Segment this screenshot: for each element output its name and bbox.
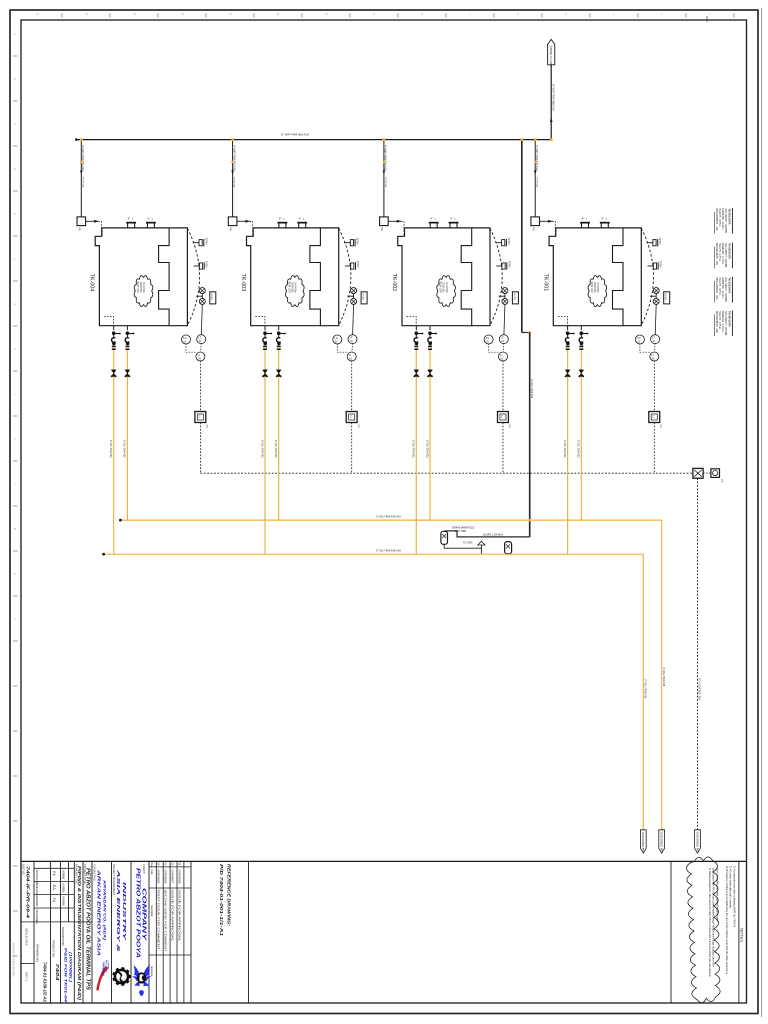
trunk crossing tick bbox=[528, 519, 531, 522]
signal drop to control room flag bbox=[697, 478, 699, 830]
svg-text:3"-OIL-7404-015-A1A: 3"-OIL-7404-015-A1A bbox=[376, 515, 401, 519]
svg-text:SECOND ISSUE FOR COMMENT: SECOND ISSUE FOR COMMENT bbox=[164, 890, 168, 953]
svg-text:ASIA ENERGY &: ASIA ENERGY & bbox=[115, 868, 121, 953]
svg-text:040808: 040808 bbox=[177, 870, 180, 885]
svg-text:DRAWING NO:: DRAWING NO: bbox=[36, 944, 40, 963]
lower header start dot bbox=[102, 553, 105, 556]
slop trunk upper segment bbox=[521, 140, 523, 333]
svg-text:TK-002 DATA: TK-002 DATA bbox=[727, 243, 731, 259]
double block valve capsule 1 bbox=[441, 531, 448, 544]
svg-text:7404: 7404 bbox=[55, 964, 60, 982]
svg-text:3"-OIL-7404-015: 3"-OIL-7404-015 bbox=[662, 667, 666, 687]
bottom off-page flag 1 bbox=[640, 830, 646, 853]
svg-text:F.A: F.A bbox=[52, 871, 56, 876]
svg-text:NOM. CAPACITY : 10000 BBL: NOM. CAPACITY : 10000 BBL bbox=[724, 243, 727, 268]
drain collection piping bbox=[444, 544, 481, 548]
svg-text:TK-003: TK-003 bbox=[240, 274, 246, 292]
svg-text:N: N bbox=[14, 573, 16, 576]
svg-text:ARVANDAN: ARVANDAN bbox=[102, 962, 105, 976]
svg-text:7404-01-0108-1/2-A1: 7404-01-0108-1/2-A1 bbox=[42, 962, 47, 1003]
svg-text:DESIGN PRESS. : ATM: DESIGN PRESS. : ATM bbox=[715, 243, 718, 265]
svg-text:PIPING & INSTRUMENTATION DIAGR: PIPING & INSTRUMENTATION DIAGRAM (P&ID) bbox=[76, 866, 82, 1000]
trunk jog tick bbox=[528, 331, 531, 334]
svg-text:DIAMETER : 14.63 m: DIAMETER : 14.63 m bbox=[721, 243, 724, 264]
recorder box bbox=[711, 469, 720, 478]
revision cloud around notes 4-6 bbox=[686, 857, 720, 1003]
svg-text:1) For general notes refer to: 1) For general notes refer to drawing DW… bbox=[732, 866, 735, 928]
svg-text:DIAMETER : 14.63 m: DIAMETER : 14.63 m bbox=[721, 209, 724, 230]
svg-text:DRAIN MANIFOLD: DRAIN MANIFOLD bbox=[452, 526, 474, 530]
lower yellow product header bbox=[103, 553, 643, 555]
svg-text:DESIGN PRESS. : ATM: DESIGN PRESS. : ATM bbox=[715, 277, 718, 299]
svg-text:TK-004: TK-004 bbox=[89, 274, 95, 292]
svg-text:COMPANY: COMPANY bbox=[107, 960, 110, 970]
PSV glyph bbox=[478, 541, 485, 545]
zone tick labels left bbox=[14, 33, 16, 621]
svg-text:M: M bbox=[14, 528, 16, 531]
svg-text:C: C bbox=[14, 123, 16, 126]
flow arrow on riser bbox=[550, 118, 553, 122]
upper yellow product header bbox=[120, 519, 662, 521]
bottom off-page flag 2 bbox=[659, 830, 665, 853]
svg-text:ISSUE FOR APPROVAL: ISSUE FOR APPROVAL bbox=[170, 890, 174, 943]
tank TK-002 bbox=[380, 138, 519, 554]
svg-text:DESIGN PRESS. : ATM: DESIGN PRESS. : ATM bbox=[715, 311, 718, 333]
svg-text:7404-IF-PR-09-4: 7404-IF-PR-09-4 bbox=[25, 866, 31, 918]
svg-text:Approved: Approved bbox=[150, 966, 153, 977]
zone tick labels top bbox=[36, 13, 711, 16]
client wings logo bbox=[132, 965, 152, 997]
svg-text:PROJECT NO:: PROJECT NO: bbox=[52, 940, 56, 958]
tank TK-001 bbox=[531, 138, 670, 554]
svg-text:FIRST ISSUE FOR COMMENT: FIRST ISSUE FOR COMMENT bbox=[157, 890, 161, 951]
riser to flare flag bbox=[550, 65, 552, 140]
svg-text:ARKAN ENERGY ASIA: ARKAN ENERGY ASIA bbox=[96, 868, 102, 956]
svg-text:NOM. CAPACITY : 10000 BBL: NOM. CAPACITY : 10000 BBL bbox=[724, 277, 727, 302]
svg-text:DRAWN: DRAWN bbox=[35, 896, 39, 906]
svg-text:DIAMETER : 14.63 m: DIAMETER : 14.63 m bbox=[721, 311, 724, 332]
approval rows grid bbox=[21, 868, 92, 963]
tank data table TK-003 bbox=[715, 277, 733, 303]
trunk junction tick bbox=[520, 138, 523, 141]
svg-text:ARVANDAN CO. (AEA): ARVANDAN CO. (AEA) bbox=[103, 878, 107, 941]
bottom off-page flag 3 bbox=[695, 830, 701, 853]
lower header riser down bbox=[642, 554, 644, 830]
svg-text:TK-004 DATA: TK-004 DATA bbox=[727, 311, 731, 327]
svg-text:Date: Date bbox=[150, 870, 153, 876]
svg-text:TK-002: TK-002 bbox=[391, 274, 397, 292]
svg-text:D: D bbox=[14, 168, 16, 171]
svg-text:CLIENT:: CLIENT: bbox=[142, 864, 146, 874]
svg-text:F.A: F.A bbox=[52, 898, 56, 903]
svg-text:3"x2" RED.: 3"x2" RED. bbox=[455, 530, 467, 533]
svg-text:DESCRIPTION:: DESCRIPTION: bbox=[61, 927, 65, 946]
svg-text:040807: 040807 bbox=[170, 870, 173, 885]
svg-text:DIAMETER : 14.63 m: DIAMETER : 14.63 m bbox=[721, 277, 724, 298]
svg-text:NOM. CAPACITY : 10000 BBL: NOM. CAPACITY : 10000 BBL bbox=[724, 311, 727, 336]
link to recorder box bbox=[703, 472, 711, 474]
svg-text:HEIGHT : 9.75 m: HEIGHT : 9.75 m bbox=[718, 243, 720, 261]
svg-text:040805: 040805 bbox=[157, 870, 160, 885]
double block valve capsule 2 bbox=[505, 542, 512, 554]
svg-text:SHT: 1: SHT: 1 bbox=[25, 972, 29, 981]
svg-text:3"-OIL-7404-016-A1A: 3"-OIL-7404-016-A1A bbox=[376, 549, 401, 553]
corner tick bbox=[550, 138, 553, 141]
title block top rule bbox=[21, 860, 747, 862]
svg-text:GSPAS-A1-7404-09 (R2): GSPAS-A1-7404-09 (R2) bbox=[11, 943, 15, 976]
zone ticks top border bbox=[62, 13, 734, 22]
svg-text:6"-VAP-7404-000-A1A: 6"-VAP-7404-000-A1A bbox=[281, 133, 309, 137]
svg-text:040808: 040808 bbox=[61, 884, 65, 893]
svg-text:DESIGN PRESS. : ATM: DESIGN PRESS. : ATM bbox=[715, 209, 718, 231]
tank data table TK-002 bbox=[715, 243, 733, 269]
scan page edge line right bbox=[761, 8, 763, 1017]
svg-text:3"-OIL-7404-020: 3"-OIL-7404-020 bbox=[530, 379, 534, 399]
svg-text:TK-001 DATA: TK-001 DATA bbox=[727, 209, 731, 225]
title block vertical dividers bbox=[34, 861, 739, 1003]
tank TK-004 bbox=[77, 138, 216, 554]
svg-text:COMPANY: COMPANY bbox=[140, 888, 146, 941]
svg-text:(10000BBL): (10000BBL) bbox=[68, 952, 72, 983]
vapour header line bbox=[76, 139, 551, 141]
zone ticks left border bbox=[13, 56, 18, 956]
upper header riser down bbox=[661, 520, 663, 830]
svg-text:PETRO ABZOT POOYA OIL TERMINAL: PETRO ABZOT POOYA OIL TERMINAL TPS bbox=[84, 868, 90, 991]
svg-text:3"-OIL-7404-016: 3"-OIL-7404-016 bbox=[643, 679, 647, 699]
trunk to manifold horizontal bbox=[445, 531, 530, 537]
project management gear logo bbox=[113, 967, 131, 985]
tank data table TK-001 bbox=[715, 208, 733, 234]
flare off-page flag bbox=[548, 39, 555, 66]
svg-text:SLOPE 1:100 MIN: SLOPE 1:100 MIN bbox=[483, 534, 503, 537]
svg-text:4) Piping arrangement after va: 4) Piping arrangement after valves for t… bbox=[708, 868, 711, 978]
svg-text:6"-VAP-7404-000-A1A: 6"-VAP-7404-000-A1A bbox=[552, 84, 556, 111]
signal junction box bbox=[693, 468, 703, 478]
svg-text:H: H bbox=[14, 348, 16, 351]
svg-text:TK-001: TK-001 bbox=[543, 274, 549, 292]
svg-text:P/D 7404-01-001-1/1-A1: P/D 7404-01-001-1/1-A1 bbox=[219, 864, 224, 937]
svg-text:2) All valves within dike wall: 2) All valves within dike wall to remain… bbox=[729, 866, 732, 909]
instrument signal bus (dashed) bbox=[200, 472, 698, 474]
svg-text:040808: 040808 bbox=[61, 897, 65, 906]
svg-text:PETRO ABZOT POOYA: PETRO ABZOT POOYA bbox=[135, 868, 141, 959]
svg-text:TK-003 DATA: TK-003 DATA bbox=[727, 277, 731, 293]
svg-text:NOTES:: NOTES: bbox=[740, 928, 745, 943]
trunk jog bbox=[522, 332, 530, 334]
svg-text:HEIGHT : 9.75 m: HEIGHT : 9.75 m bbox=[718, 311, 720, 329]
slop trunk lower segment bbox=[529, 333, 531, 537]
svg-text:SCALE: NTS: SCALE: NTS bbox=[25, 928, 29, 946]
svg-text:REFERENCE DRAWING:: REFERENCE DRAWING: bbox=[227, 864, 232, 927]
svg-text:ISSUE FOR APPROVAL: ISSUE FOR APPROVAL bbox=[177, 890, 181, 943]
upper header start dot bbox=[119, 519, 122, 522]
svg-text:INDUSTRY: INDUSTRY bbox=[121, 882, 127, 942]
svg-text:040808: 040808 bbox=[61, 870, 65, 879]
svg-text:NOM. CAPACITY : 10000 BBL: NOM. CAPACITY : 10000 BBL bbox=[724, 209, 727, 234]
svg-text:B.A: B.A bbox=[52, 885, 56, 890]
drop to lower product header bbox=[480, 545, 482, 554]
tank data table TK-004 bbox=[715, 311, 733, 337]
svg-text:P&ID FOR TK01-04: P&ID FOR TK01-04 bbox=[64, 948, 68, 1002]
svg-text:ENG. & CONST.: ENG. & CONST. bbox=[104, 960, 106, 974]
svg-text:LIR: LIR bbox=[720, 479, 722, 483]
svg-text:040806: 040806 bbox=[164, 870, 167, 885]
svg-text:G: G bbox=[14, 303, 16, 306]
svg-text:HEIGHT : 9.75 m: HEIGHT : 9.75 m bbox=[718, 277, 720, 295]
svg-text:CHECKED: CHECKED bbox=[35, 883, 39, 896]
revision table grid bbox=[149, 861, 191, 1003]
svg-text:TO OWS: TO OWS bbox=[463, 542, 473, 545]
tank TK-003 bbox=[228, 138, 367, 554]
svg-text:HEIGHT : 9.75 m: HEIGHT : 9.75 m bbox=[718, 209, 720, 227]
header end dot bbox=[75, 138, 78, 141]
svg-text:Description: Description bbox=[150, 905, 153, 918]
svg-text:3) Emergency venting is accomp: 3) Emergency venting is accomplished by … bbox=[725, 866, 728, 975]
consulting logo bbox=[96, 960, 109, 991]
svg-text:TO CONTROL RM: TO CONTROL RM bbox=[698, 678, 702, 700]
svg-text:DESIGNED: DESIGNED bbox=[35, 910, 39, 924]
